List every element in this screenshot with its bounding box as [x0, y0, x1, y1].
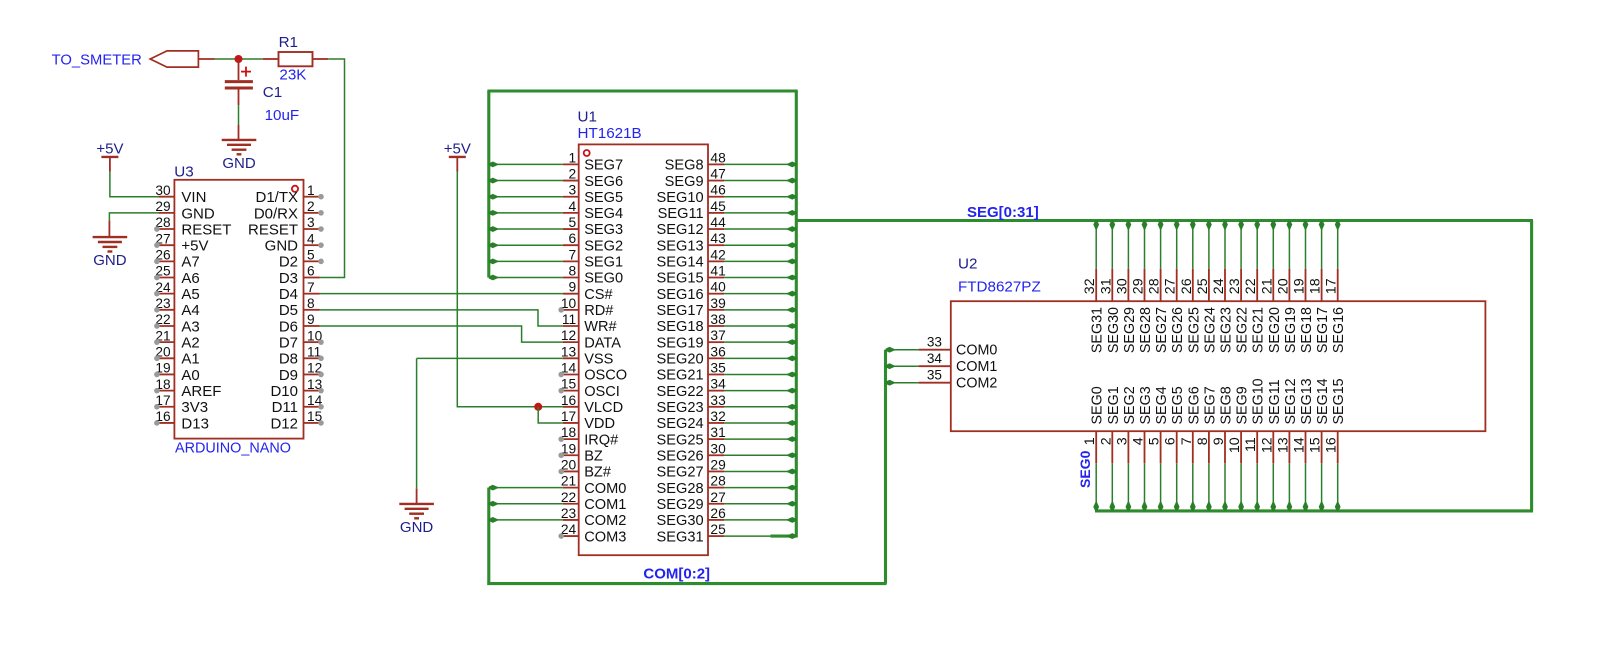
svg-text:SEG12: SEG12 [657, 222, 704, 238]
svg-text:C1: C1 [263, 84, 282, 101]
svg-text:33: 33 [710, 393, 726, 408]
svg-text:SEG1: SEG1 [584, 255, 623, 271]
svg-text:RD#: RD# [584, 303, 614, 319]
svg-text:SEG21: SEG21 [1251, 307, 1267, 353]
svg-text:SEG20: SEG20 [657, 352, 704, 368]
svg-text:41: 41 [710, 264, 725, 279]
svg-text:A4: A4 [181, 302, 199, 319]
wire U1 VSS to ground [417, 357, 563, 359]
U1 pin-1 marker [584, 150, 590, 156]
svg-text:VLCD: VLCD [584, 400, 623, 416]
svg-text:SEG28: SEG28 [1138, 307, 1154, 353]
svg-text:29: 29 [155, 199, 170, 214]
svg-text:20: 20 [1275, 278, 1291, 294]
svg-text:5: 5 [307, 248, 315, 263]
svg-text:23: 23 [1227, 278, 1243, 294]
U1 unconnected pin markers [558, 307, 564, 313]
svg-text:A2: A2 [181, 335, 199, 352]
svg-text:SEG12: SEG12 [1283, 378, 1299, 424]
U2 left pin stubs (COM0-COM2) [919, 349, 951, 351]
svg-text:SEG31: SEG31 [1090, 307, 1106, 353]
svg-text:SEG13: SEG13 [1299, 378, 1315, 424]
svg-text:RESET: RESET [181, 221, 231, 238]
svg-text:29: 29 [710, 457, 726, 472]
ground GND (C1) [238, 125, 240, 139]
svg-text:A3: A3 [181, 318, 199, 335]
svg-text:D1/TX: D1/TX [255, 189, 298, 206]
svg-text:SEG24: SEG24 [657, 416, 704, 432]
svg-text:SEG14: SEG14 [657, 255, 704, 271]
svg-text:SEG4: SEG4 [1154, 386, 1170, 424]
svg-text:SEG23: SEG23 [1219, 307, 1235, 353]
svg-text:36: 36 [710, 344, 726, 359]
bus entries U2 COM [886, 347, 897, 353]
svg-text:ARDUINO_NANO: ARDUINO_NANO [175, 440, 291, 456]
svg-text:SEG6: SEG6 [584, 174, 623, 190]
svg-text:31: 31 [710, 425, 725, 440]
U2 top pin wires to SEG bus [1095, 221, 1097, 269]
U1 left pin stubs [563, 163, 579, 165]
svg-text:D3: D3 [279, 270, 298, 287]
svg-text:3: 3 [307, 215, 315, 230]
svg-text:A6: A6 [181, 270, 199, 287]
svg-text:OSCO: OSCO [584, 368, 627, 384]
svg-text:SEG11: SEG11 [1267, 379, 1283, 424]
wire U3 D5 to U1 WR# [320, 310, 563, 326]
bus COM vertical at U2 [884, 350, 887, 584]
junction at TO_SMETER/C1/R1 node [235, 55, 243, 63]
svg-text:COM2: COM2 [956, 375, 997, 391]
svg-text:SEG3: SEG3 [1138, 386, 1154, 424]
svg-text:COM1: COM1 [584, 497, 626, 513]
svg-text:GND: GND [181, 205, 215, 222]
svg-text:SEG7: SEG7 [584, 158, 623, 174]
svg-text:SEG9: SEG9 [665, 174, 704, 190]
svg-text:31: 31 [1098, 278, 1114, 294]
wire U1 SEG31 (pin 25) to right bus [724, 535, 770, 537]
svg-text:D2: D2 [279, 254, 298, 271]
svg-text:16: 16 [1324, 437, 1340, 453]
svg-text:D7: D7 [279, 335, 298, 352]
svg-text:+5V: +5V [181, 238, 208, 255]
svg-text:GND: GND [265, 238, 299, 255]
svg-text:11: 11 [562, 312, 576, 327]
svg-text:COM0: COM0 [584, 481, 626, 497]
svg-text:3: 3 [569, 183, 577, 198]
svg-text:40: 40 [710, 280, 726, 295]
svg-text:GND: GND [222, 155, 256, 172]
svg-text:SEG18: SEG18 [1299, 307, 1315, 353]
U2 bottom pin stubs [1095, 431, 1097, 463]
svg-text:18: 18 [1308, 278, 1324, 294]
power +5V (U3) [101, 156, 118, 158]
svg-text:D9: D9 [279, 367, 298, 384]
svg-text:SEG16: SEG16 [1331, 307, 1347, 353]
svg-text:SEG[0:31]: SEG[0:31] [967, 204, 1039, 221]
svg-text:CS#: CS# [584, 287, 613, 303]
svg-text:9: 9 [569, 280, 577, 295]
svg-text:RESET: RESET [248, 221, 298, 238]
capacitor C1 [238, 59, 240, 80]
svg-text:5: 5 [1147, 437, 1163, 445]
svg-text:10: 10 [1227, 437, 1243, 453]
svg-text:16: 16 [561, 393, 577, 408]
svg-text:SEG18: SEG18 [657, 319, 704, 335]
svg-text:GND: GND [400, 519, 434, 536]
svg-text:SEG0: SEG0 [584, 271, 623, 287]
svg-text:D10: D10 [270, 383, 298, 400]
svg-text:33: 33 [927, 335, 942, 350]
svg-text:D6: D6 [279, 318, 298, 335]
svg-text:13: 13 [561, 344, 577, 359]
svg-text:D8: D8 [279, 351, 298, 368]
svg-text:15: 15 [1308, 437, 1324, 453]
svg-text:SEG8: SEG8 [1219, 386, 1235, 424]
svg-text:SEG19: SEG19 [1283, 307, 1299, 353]
svg-text:SEG22: SEG22 [1235, 307, 1251, 353]
svg-text:SEG28: SEG28 [657, 481, 704, 497]
svg-text:6: 6 [307, 264, 315, 279]
svg-text:OSCI: OSCI [584, 384, 620, 400]
svg-text:SEG24: SEG24 [1202, 307, 1218, 353]
svg-text:2: 2 [1098, 437, 1114, 445]
svg-text:SEG11: SEG11 [658, 206, 704, 222]
svg-text:35: 35 [710, 360, 726, 375]
svg-text:TO_SMETER: TO_SMETER [52, 52, 142, 68]
bus COM bottom horizontal [487, 582, 886, 585]
wire +5V to U1 VLCD [457, 172, 562, 407]
svg-text:SEG14: SEG14 [1315, 378, 1331, 424]
svg-text:8: 8 [569, 264, 577, 279]
svg-text:42: 42 [710, 247, 725, 262]
svg-text:D12: D12 [270, 415, 298, 432]
IC U1 body [579, 144, 708, 555]
svg-text:U1: U1 [578, 108, 597, 125]
svg-text:R1: R1 [279, 34, 298, 51]
U3 right pin stubs [304, 196, 320, 198]
wires U1 SEG7-SEG0 to left bus [489, 163, 563, 165]
junction at VLCD/VDD [534, 403, 542, 411]
svg-text:7: 7 [569, 247, 577, 262]
svg-text:VIN: VIN [181, 189, 206, 206]
svg-text:17: 17 [1324, 278, 1340, 294]
svg-text:SEG13: SEG13 [657, 238, 704, 254]
svg-text:SEG23: SEG23 [657, 400, 704, 416]
svg-text:9: 9 [307, 312, 315, 327]
svg-text:34: 34 [927, 351, 943, 366]
svg-text:14: 14 [1292, 437, 1308, 453]
bus SEG bottom return under U2 [1095, 509, 1533, 512]
wire U3 D6 to U1 DATA [320, 326, 563, 342]
svg-text:SEG29: SEG29 [1122, 307, 1138, 353]
svg-text:21: 21 [1259, 278, 1275, 294]
svg-text:IRQ#: IRQ# [584, 432, 619, 448]
svg-text:U2: U2 [958, 256, 977, 273]
svg-text:25: 25 [710, 522, 726, 537]
bus entries U2 bottom [1093, 500, 1099, 511]
svg-text:SEG10: SEG10 [1251, 378, 1267, 424]
svg-text:SEG22: SEG22 [657, 384, 704, 400]
U2 top pin stubs [1095, 269, 1097, 302]
svg-text:1: 1 [307, 183, 315, 198]
svg-text:8: 8 [1195, 437, 1211, 445]
svg-text:SEG2: SEG2 [584, 238, 623, 254]
svg-text:SEG9: SEG9 [1235, 386, 1251, 424]
svg-text:SEG5: SEG5 [584, 190, 623, 206]
svg-text:22: 22 [1243, 278, 1259, 294]
svg-text:WR#: WR# [584, 319, 617, 335]
U2 bottom pin wires to SEG return bus [1095, 463, 1097, 511]
svg-text:D0/RX: D0/RX [254, 205, 298, 222]
bus SEG left vertical [487, 91, 490, 278]
bus SEG right vertical [795, 91, 798, 537]
svg-text:3V3: 3V3 [181, 399, 208, 416]
bus SEG top horizontal [487, 89, 797, 92]
svg-text:D13: D13 [181, 415, 209, 432]
svg-text:47: 47 [710, 167, 725, 182]
power +5V (U1) [449, 156, 466, 158]
connector pin stub [198, 58, 214, 60]
svg-text:32: 32 [1082, 278, 1098, 294]
svg-text:10uF: 10uF [265, 107, 300, 124]
svg-text:COM[0:2]: COM[0:2] [643, 565, 710, 582]
svg-text:BZ#: BZ# [584, 465, 612, 481]
svg-text:SEG27: SEG27 [1154, 307, 1170, 353]
svg-text:SEG20: SEG20 [1267, 307, 1283, 353]
svg-text:8: 8 [307, 296, 315, 311]
svg-text:SEG1: SEG1 [1106, 386, 1122, 424]
svg-text:23K: 23K [279, 67, 306, 84]
svg-text:A0: A0 [181, 367, 199, 384]
connector TO_SMETER [150, 51, 198, 67]
svg-text:SEG30: SEG30 [1106, 307, 1122, 353]
U1 right pin stubs [708, 163, 724, 165]
svg-text:D4: D4 [279, 286, 298, 303]
svg-text:30: 30 [155, 183, 171, 198]
svg-text:A1: A1 [181, 351, 199, 368]
svg-text:SEG3: SEG3 [584, 222, 623, 238]
svg-text:30: 30 [1114, 278, 1130, 294]
svg-text:SEG29: SEG29 [657, 497, 704, 513]
svg-text:2: 2 [307, 199, 315, 214]
svg-text:6: 6 [1163, 437, 1179, 445]
svg-text:HT1621B: HT1621B [578, 125, 642, 142]
wire C1 to ground [238, 105, 240, 125]
svg-text:DATA: DATA [584, 335, 621, 351]
svg-text:34: 34 [710, 377, 726, 392]
svg-text:30: 30 [710, 441, 726, 456]
bus right vertical (far right) [1530, 221, 1533, 511]
svg-text:SEG15: SEG15 [1331, 378, 1347, 424]
svg-text:A7: A7 [181, 254, 199, 271]
wires U1 SEG8-SEG31 to right bus [724, 163, 796, 165]
wire +5V to U3 VIN [110, 172, 158, 197]
svg-text:26: 26 [710, 506, 726, 521]
svg-text:32: 32 [710, 409, 725, 424]
IC U3 body [174, 180, 303, 439]
U3 pin-1 marker [292, 186, 298, 192]
svg-text:17: 17 [561, 409, 576, 424]
svg-text:D11: D11 [272, 399, 298, 416]
U3 unconnected pin markers [154, 226, 160, 232]
svg-text:4: 4 [569, 199, 577, 214]
bus entries U2 top [1093, 221, 1099, 232]
svg-text:44: 44 [710, 215, 726, 230]
svg-text:D5: D5 [279, 302, 298, 319]
wire U3 GND to ground [109, 213, 158, 220]
wire VLCD junction to U1 VDD [538, 407, 563, 423]
ground GND (U1 VSS) [416, 488, 418, 503]
svg-text:SEG27: SEG27 [657, 465, 704, 481]
resistor R1 [263, 58, 279, 60]
svg-text:28: 28 [710, 474, 726, 489]
svg-text:48: 48 [710, 150, 726, 165]
svg-text:4: 4 [307, 231, 315, 246]
svg-text:6: 6 [569, 231, 577, 246]
svg-text:AREF: AREF [181, 383, 221, 400]
svg-text:7: 7 [307, 280, 315, 295]
U2 left pin wires to COM bus [886, 349, 919, 351]
svg-text:SEG15: SEG15 [657, 271, 704, 287]
svg-text:4: 4 [1131, 437, 1147, 445]
svg-text:SEG10: SEG10 [657, 190, 704, 206]
svg-text:SEG0: SEG0 [1077, 450, 1093, 488]
svg-text:13: 13 [1275, 437, 1291, 453]
svg-text:SEG17: SEG17 [657, 303, 704, 319]
svg-text:COM1: COM1 [956, 359, 997, 375]
svg-text:SEG5: SEG5 [1170, 386, 1186, 424]
svg-text:SEG19: SEG19 [657, 335, 704, 351]
svg-text:2: 2 [569, 167, 577, 182]
svg-text:27: 27 [710, 490, 725, 505]
bus SEG[0:31] horizontal [796, 219, 1533, 222]
svg-text:U3: U3 [174, 163, 193, 180]
wires U1 COM0-COM2 to left bus [489, 487, 563, 489]
svg-text:11: 11 [1243, 437, 1259, 452]
svg-text:29: 29 [1131, 278, 1147, 294]
svg-text:7: 7 [1179, 437, 1195, 445]
svg-text:35: 35 [927, 368, 942, 383]
wire U3 D4 to U1 CS# [320, 293, 563, 295]
bus entries U1 right [786, 162, 797, 168]
svg-text:BZ: BZ [584, 448, 603, 464]
svg-text:SEG25: SEG25 [657, 432, 704, 448]
svg-text:SEG25: SEG25 [1186, 307, 1202, 353]
bus entries U1 COM [489, 485, 500, 491]
bus COM left vertical at U1 [487, 488, 490, 585]
svg-text:SEG7: SEG7 [1202, 386, 1218, 424]
svg-text:COM3: COM3 [584, 529, 626, 545]
svg-text:SEG17: SEG17 [1315, 307, 1331, 353]
svg-text:38: 38 [710, 312, 726, 327]
svg-text:SEG26: SEG26 [657, 448, 704, 464]
svg-text:43: 43 [710, 231, 726, 246]
C1 plus sign [241, 71, 251, 73]
svg-text:SEG16: SEG16 [657, 287, 704, 303]
svg-text:12: 12 [1259, 437, 1275, 453]
svg-text:9: 9 [1211, 437, 1227, 445]
svg-text:26: 26 [1179, 278, 1195, 294]
svg-text:A5: A5 [181, 286, 199, 303]
svg-text:SEG30: SEG30 [657, 513, 704, 529]
svg-text:45: 45 [710, 199, 726, 214]
svg-text:SEG26: SEG26 [1170, 307, 1186, 353]
svg-text:+5V: +5V [96, 141, 123, 158]
bus entries U1 left (pins 1-8) [489, 162, 500, 168]
svg-text:23: 23 [561, 506, 577, 521]
svg-text:39: 39 [710, 296, 726, 311]
svg-text:28: 28 [1147, 278, 1163, 294]
U3 left pin stubs [158, 196, 174, 198]
svg-text:5: 5 [569, 215, 577, 230]
wire R1 to U3 D3 [320, 59, 345, 278]
svg-text:25: 25 [1195, 278, 1211, 294]
svg-text:27: 27 [1163, 278, 1179, 294]
svg-text:VSS: VSS [584, 352, 613, 368]
svg-text:SEG6: SEG6 [1186, 386, 1202, 424]
svg-text:19: 19 [1292, 278, 1308, 294]
svg-text:24: 24 [1211, 278, 1227, 294]
svg-text:VDD: VDD [584, 416, 615, 432]
svg-text:3: 3 [1114, 437, 1130, 445]
wire TO_SMETER node [215, 58, 263, 60]
svg-text:1: 1 [1082, 437, 1098, 445]
svg-text:1: 1 [569, 150, 577, 165]
svg-text:37: 37 [710, 328, 725, 343]
svg-text:12: 12 [561, 328, 576, 343]
svg-text:GND: GND [93, 252, 127, 269]
svg-text:22: 22 [561, 490, 576, 505]
svg-text:SEG2: SEG2 [1122, 386, 1138, 424]
svg-text:SEG21: SEG21 [657, 368, 704, 384]
svg-text:+5V: +5V [444, 141, 471, 158]
svg-text:SEG4: SEG4 [584, 206, 623, 222]
svg-text:COM0: COM0 [956, 342, 997, 358]
svg-text:FTD8627PZ: FTD8627PZ [958, 278, 1041, 295]
svg-text:SEG8: SEG8 [665, 158, 704, 174]
svg-text:21: 21 [561, 474, 576, 489]
IC U2 body [951, 301, 1486, 431]
svg-text:COM2: COM2 [584, 513, 626, 529]
svg-text:SEG0: SEG0 [1090, 386, 1106, 424]
svg-text:SEG31: SEG31 [657, 529, 704, 545]
ground GND (U3) [108, 220, 110, 236]
svg-text:46: 46 [710, 183, 726, 198]
